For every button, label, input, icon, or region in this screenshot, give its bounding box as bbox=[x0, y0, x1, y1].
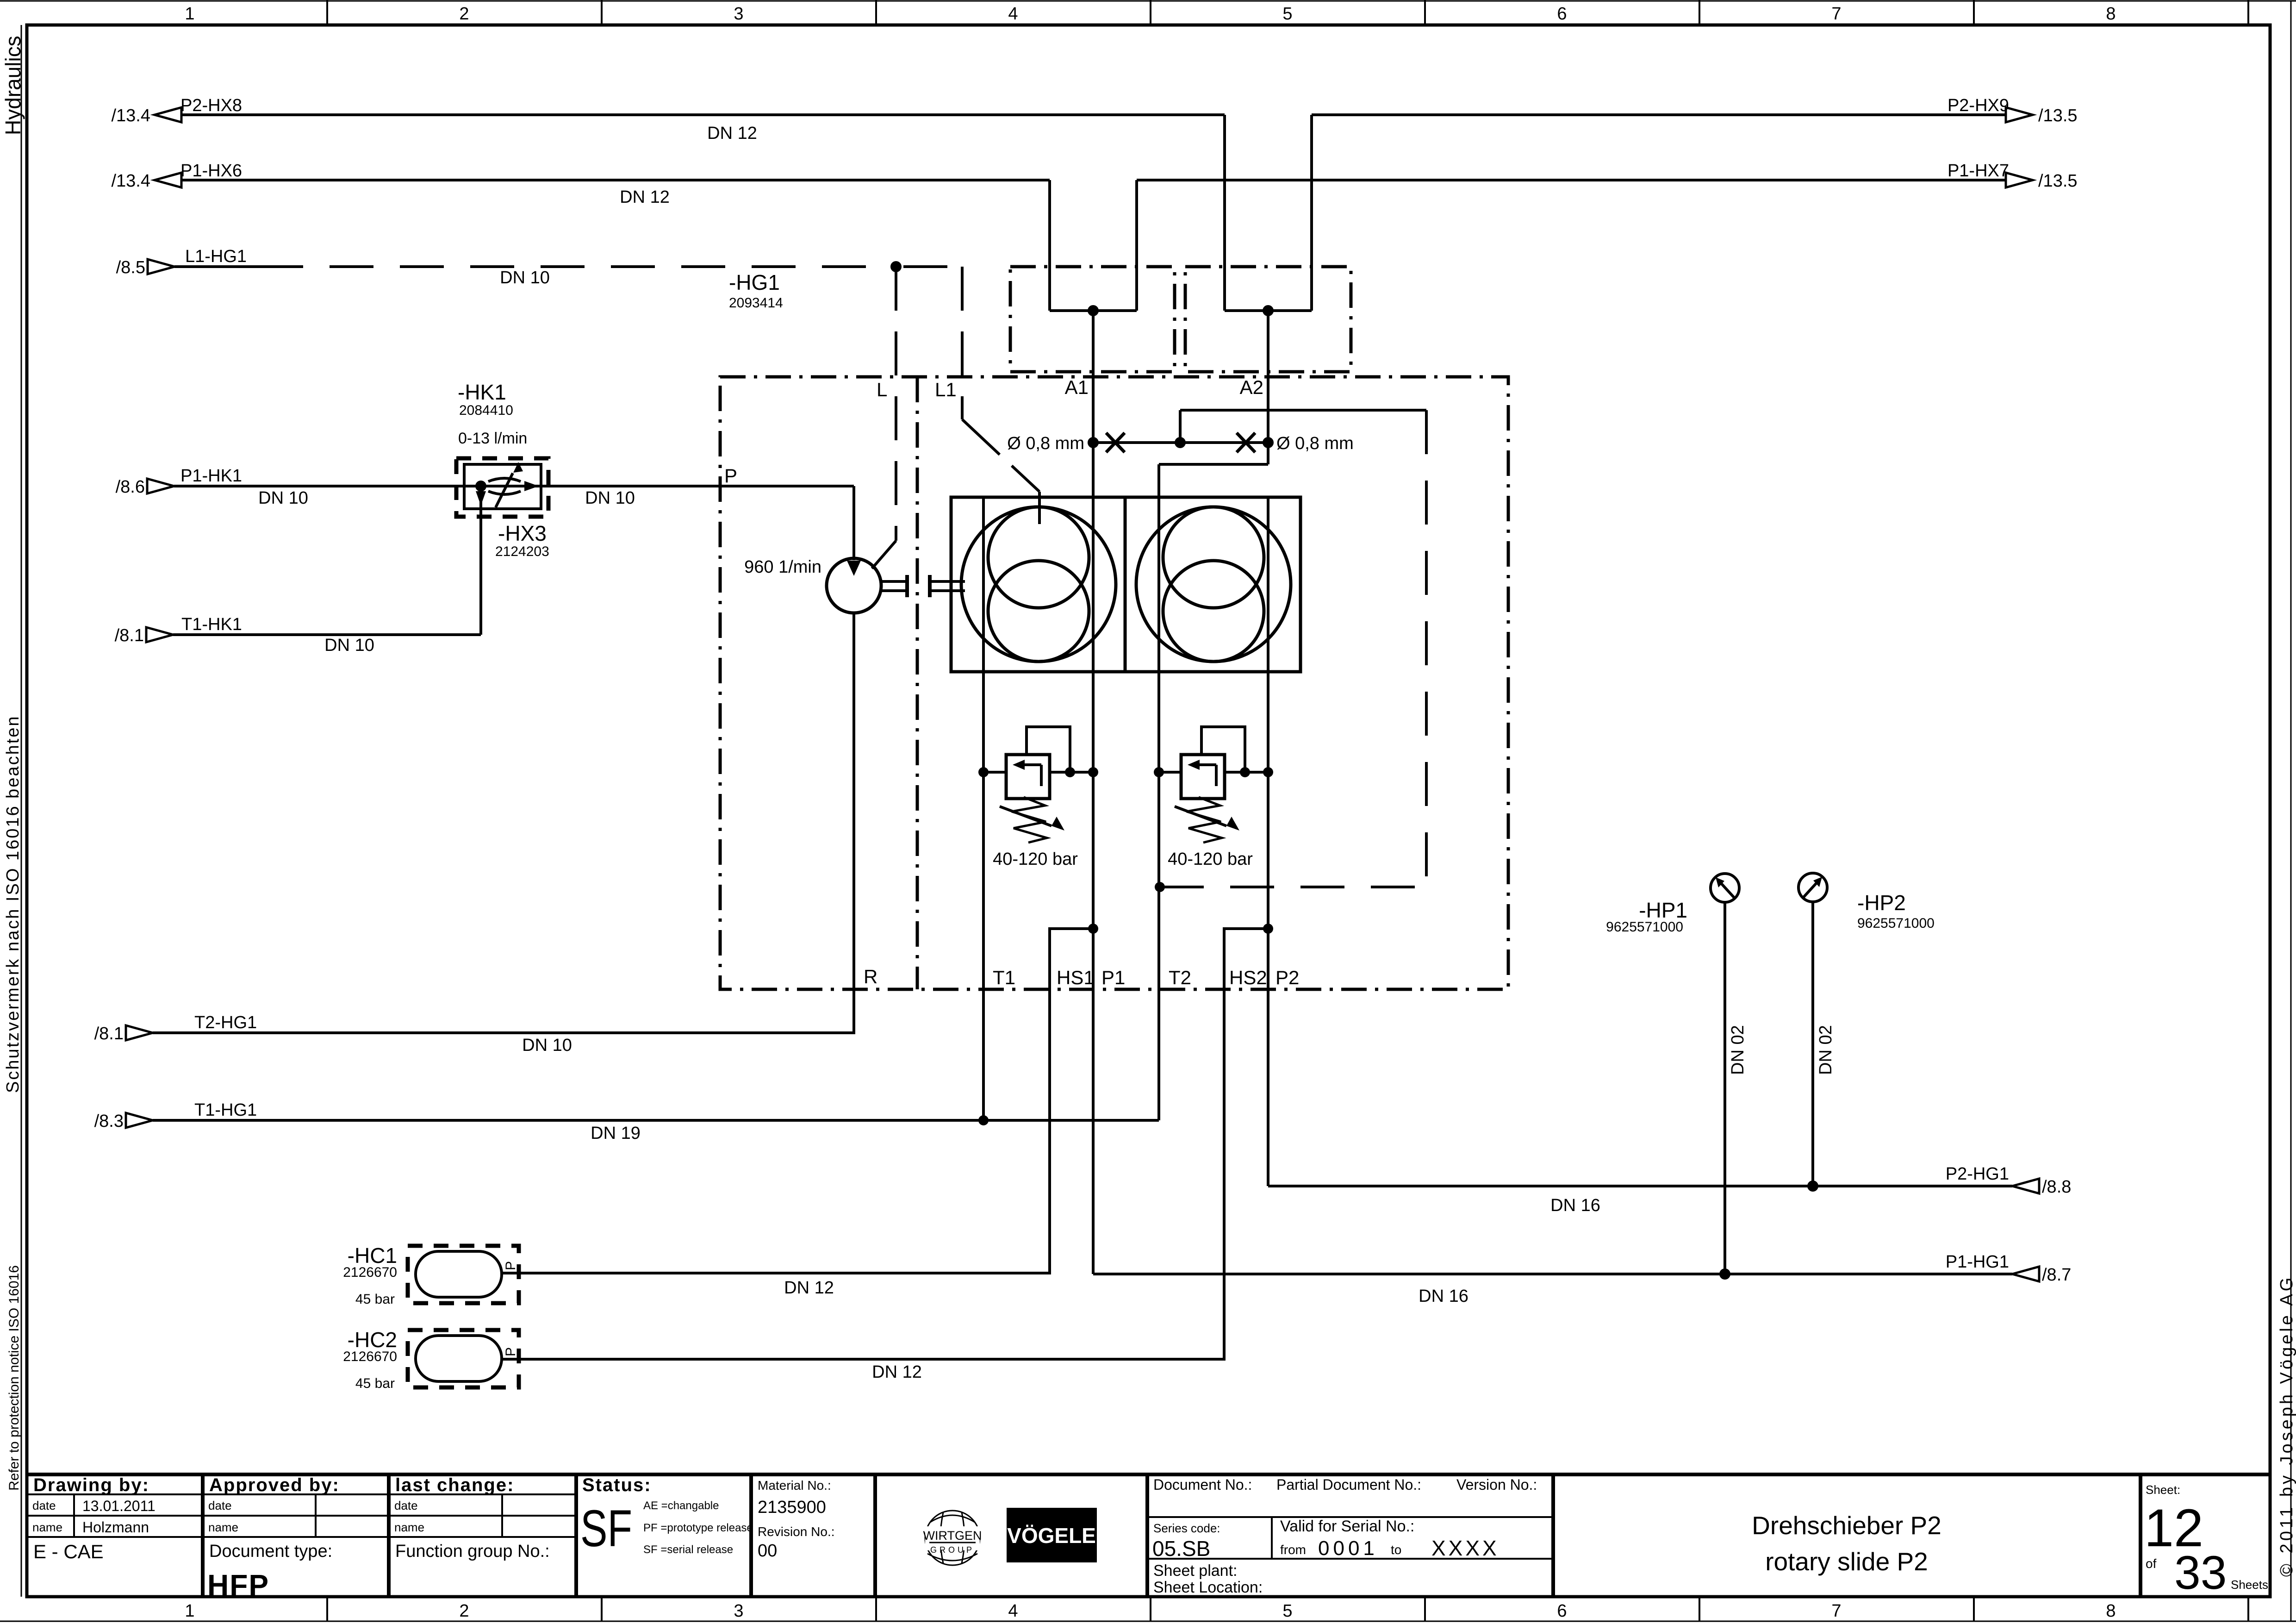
svg-text:45 bar: 45 bar bbox=[355, 1292, 395, 1307]
svg-text:name: name bbox=[208, 1520, 238, 1534]
svg-text:T2: T2 bbox=[1169, 967, 1191, 988]
svg-text:2084410: 2084410 bbox=[459, 403, 513, 418]
connection point arrows bbox=[126, 107, 2039, 1281]
svg-text:of: of bbox=[2146, 1556, 2157, 1571]
paper bottom band line bbox=[0, 1621, 2296, 1622]
svg-text:HS1: HS1 bbox=[1057, 967, 1095, 988]
svg-text:-HC1: -HC1 bbox=[348, 1243, 397, 1268]
relief valve 2 bbox=[1159, 727, 1268, 843]
arrow /8.8 P2-HG1 bbox=[2012, 1179, 2039, 1193]
flow divider -HG1 body bbox=[951, 497, 1300, 672]
svg-text:/8.7: /8.7 bbox=[2042, 1265, 2071, 1285]
svg-text:P1-HG1: P1-HG1 bbox=[1946, 1252, 2009, 1272]
wire sense crossover dashed drop bbox=[1425, 410, 1428, 887]
svg-text:45 bar: 45 bar bbox=[355, 1376, 395, 1391]
svg-text:/8.8: /8.8 bbox=[2042, 1177, 2071, 1197]
svg-text:HFP: HFP bbox=[207, 1568, 269, 1602]
wire orifice sense riser bbox=[1179, 410, 1182, 443]
wire HP1 stem bbox=[1724, 902, 1726, 1274]
wire P1-HX7 right segment bbox=[1137, 179, 2006, 181]
wire A1 feed bbox=[1092, 311, 1095, 1274]
svg-text:VÖGELE: VÖGELE bbox=[1007, 1524, 1096, 1548]
svg-text:40-120 bar: 40-120 bar bbox=[993, 849, 1078, 869]
svg-text:R: R bbox=[864, 966, 877, 987]
wire sense dashed return to T2 bbox=[1160, 886, 1426, 888]
wire P1-HX6 left segment bbox=[181, 179, 1050, 181]
wire L port dashed drop bbox=[895, 267, 897, 541]
svg-text:PF =prototype release: PF =prototype release bbox=[643, 1522, 753, 1534]
svg-text:Ø 0,8 mm: Ø 0,8 mm bbox=[1276, 434, 1354, 453]
svg-text:DN 16: DN 16 bbox=[1419, 1287, 1468, 1306]
svg-text:L: L bbox=[877, 379, 887, 400]
wire L1-HG1 solid start bbox=[174, 265, 259, 268]
arrow /13.5 P2-HX9 bbox=[2006, 107, 2033, 122]
svg-text:DN 12: DN 12 bbox=[784, 1278, 834, 1298]
arrow /8.7 P1-HG1 bbox=[2012, 1267, 2039, 1281]
svg-text:7: 7 bbox=[1831, 1601, 1841, 1621]
wire P1 drop left bbox=[1048, 180, 1051, 311]
svg-text:1: 1 bbox=[185, 4, 194, 24]
svg-text:7: 7 bbox=[1831, 4, 1841, 24]
svg-text:DN 10: DN 10 bbox=[258, 488, 308, 508]
svg-text:date: date bbox=[394, 1499, 418, 1512]
svg-text:DN 19: DN 19 bbox=[591, 1124, 641, 1143]
svg-text:DN 16: DN 16 bbox=[1550, 1196, 1600, 1215]
wire L1-HG1 dashed run bbox=[259, 265, 896, 268]
svg-text:name: name bbox=[394, 1520, 424, 1534]
svg-text:Material No.:: Material No.: bbox=[758, 1478, 831, 1493]
arrow /8.1 T2-HG1 bbox=[126, 1025, 153, 1040]
svg-text:DN 12: DN 12 bbox=[872, 1362, 922, 1382]
svg-text:name: name bbox=[32, 1520, 62, 1534]
accumulator -HC2 bbox=[408, 1330, 519, 1387]
svg-text:WIRTGEN: WIRTGEN bbox=[923, 1529, 982, 1543]
VOEGELE logo bbox=[1007, 1508, 1097, 1562]
small dash-dot box A2 bbox=[1185, 267, 1351, 372]
svg-text:8: 8 bbox=[2106, 4, 2116, 24]
svg-text:1: 1 bbox=[185, 1601, 194, 1621]
svg-text:P: P bbox=[503, 1261, 518, 1270]
svg-text:2124203: 2124203 bbox=[495, 544, 549, 559]
wire P2-HX8 left segment bbox=[181, 113, 1225, 116]
arrow /8.3 T1-HG1 bbox=[126, 1113, 153, 1128]
svg-text:Approved by:: Approved by: bbox=[209, 1475, 340, 1495]
svg-text:/13.4: /13.4 bbox=[111, 106, 150, 125]
svg-text:P1-HX7: P1-HX7 bbox=[1948, 161, 2009, 181]
svg-text:L1-HG1: L1-HG1 bbox=[185, 247, 247, 266]
small dash-dot box A1 bbox=[1010, 267, 1175, 372]
svg-text:HS2: HS2 bbox=[1229, 967, 1267, 988]
svg-text:-HG1: -HG1 bbox=[729, 270, 780, 294]
svg-text:P2-HX9: P2-HX9 bbox=[1948, 96, 2009, 115]
wire P2-HX9 right segment bbox=[1312, 113, 2006, 116]
svg-text:© 2011 by Joseph Vögele AG: © 2011 by Joseph Vögele AG bbox=[2277, 1275, 2296, 1577]
arrow /8.5 L1-HG1 bbox=[148, 259, 174, 274]
svg-text:rotary slide P2: rotary slide P2 bbox=[1765, 1547, 1928, 1576]
svg-text:P1-HX6: P1-HX6 bbox=[180, 161, 242, 181]
svg-text:P2: P2 bbox=[1276, 967, 1299, 988]
svg-text:/8.1: /8.1 bbox=[94, 1024, 124, 1043]
svg-text:3: 3 bbox=[734, 1601, 743, 1621]
top zone ticks bbox=[327, 0, 2248, 25]
svg-text:3: 3 bbox=[734, 4, 743, 24]
wire P1-HG1 bbox=[1093, 1273, 2012, 1275]
svg-text:Sheet Location:: Sheet Location: bbox=[1153, 1579, 1263, 1596]
svg-text:5: 5 bbox=[1282, 4, 1292, 24]
svg-text:XXXX: XXXX bbox=[1431, 1536, 1500, 1560]
arrow /8.6 P1-HK1 bbox=[147, 479, 174, 493]
svg-text:Valid for Serial No.:: Valid for Serial No.: bbox=[1280, 1518, 1414, 1535]
svg-text:/13.4: /13.4 bbox=[111, 171, 150, 191]
wire HP2 stem bbox=[1811, 902, 1814, 1186]
svg-text:Ø 0,8 mm: Ø 0,8 mm bbox=[1007, 434, 1084, 453]
wire P2 column bbox=[1267, 497, 1269, 1186]
wire HS2 branch bbox=[511, 929, 1268, 1359]
svg-text:5: 5 bbox=[1282, 1601, 1292, 1621]
svg-text:date: date bbox=[208, 1499, 232, 1512]
svg-text:P2-HX8: P2-HX8 bbox=[180, 96, 242, 115]
wire P2 drop right bbox=[1310, 115, 1313, 311]
svg-text:Sheet plant:: Sheet plant: bbox=[1153, 1562, 1237, 1580]
relief valve 1 bbox=[983, 727, 1093, 843]
pressure gauge -HP1 bbox=[1711, 874, 1739, 902]
bottom zone ticks bbox=[327, 1597, 2248, 1621]
drive shaft bbox=[881, 575, 965, 597]
svg-text:P2-HG1: P2-HG1 bbox=[1946, 1164, 2009, 1184]
gear section 2 circles bbox=[1136, 507, 1291, 662]
gear section 1 circles bbox=[961, 507, 1116, 662]
svg-text:-HP1: -HP1 bbox=[1639, 898, 1687, 922]
wire T1-HK1 bbox=[173, 633, 481, 636]
svg-text:8: 8 bbox=[2106, 1601, 2116, 1621]
wire A2 jog bbox=[1159, 463, 1268, 466]
svg-text:DN 12: DN 12 bbox=[620, 187, 670, 207]
arrow /13.5 P1-HX7 bbox=[2006, 173, 2033, 187]
wire L1 dashed continuation bbox=[903, 265, 962, 268]
svg-text:last change:: last change: bbox=[395, 1475, 514, 1495]
arrow /8.1 T1-HK1 bbox=[146, 627, 173, 642]
svg-text:P1: P1 bbox=[1101, 967, 1125, 988]
wire T1 column bbox=[982, 497, 985, 1120]
svg-text:2126670: 2126670 bbox=[343, 1349, 397, 1364]
wire L1 diagonal bbox=[962, 419, 1039, 492]
wire A2 feed upper bbox=[1267, 311, 1269, 464]
svg-text:T1-HG1: T1-HG1 bbox=[194, 1100, 257, 1120]
svg-text:DN 02: DN 02 bbox=[1816, 1025, 1836, 1075]
svg-text:A2: A2 bbox=[1240, 376, 1263, 398]
svg-text:to: to bbox=[1391, 1543, 1401, 1557]
svg-text:SF =serial release: SF =serial release bbox=[643, 1543, 733, 1556]
svg-text:SF: SF bbox=[580, 1499, 632, 1557]
svg-text:2: 2 bbox=[459, 1601, 469, 1621]
title block vertical separators bbox=[203, 1474, 2140, 1597]
arrow /13.4 P2-HX8 bbox=[155, 107, 181, 122]
wire T1-HG1 bbox=[153, 1119, 1159, 1122]
TITLEBLOCK bbox=[27, 1474, 2270, 1597]
svg-text:L1: L1 bbox=[935, 379, 957, 400]
svg-text:from: from bbox=[1280, 1543, 1306, 1557]
svg-text:Revision No.:: Revision No.: bbox=[758, 1524, 835, 1539]
svg-text:Drehschieber P2: Drehschieber P2 bbox=[1752, 1511, 1941, 1540]
motor arrow bbox=[847, 561, 861, 576]
svg-text:DN 10: DN 10 bbox=[585, 488, 635, 508]
wire P2-HG1 bbox=[1268, 1185, 2012, 1187]
svg-text:Series code:: Series code: bbox=[1153, 1521, 1220, 1535]
svg-text:DN 10: DN 10 bbox=[324, 636, 374, 655]
svg-text:9625571000: 9625571000 bbox=[1606, 919, 1683, 935]
svg-text:Document No.:: Document No.: bbox=[1153, 1476, 1252, 1493]
svg-text:33: 33 bbox=[2174, 1546, 2227, 1599]
motor 960 1/min circle bbox=[827, 558, 881, 613]
svg-text:Schutzvermerk nach ISO 16016 b: Schutzvermerk nach ISO 16016 beachten bbox=[3, 715, 23, 1093]
pressure gauge -HP2 bbox=[1798, 873, 1827, 902]
wire HK1 tank drop bbox=[479, 486, 482, 635]
svg-text:Status:: Status: bbox=[582, 1475, 652, 1495]
wire T2 column bbox=[1157, 464, 1160, 1120]
svg-text:-HP2: -HP2 bbox=[1857, 891, 1906, 915]
svg-text:Drawing by:: Drawing by: bbox=[33, 1475, 149, 1495]
wire orifice line A1 bbox=[1093, 441, 1180, 444]
accumulator -HC1 bbox=[408, 1246, 519, 1303]
svg-text:/13.5: /13.5 bbox=[2038, 106, 2078, 125]
svg-text:2093414: 2093414 bbox=[729, 295, 783, 311]
svg-text:/13.5: /13.5 bbox=[2038, 171, 2078, 191]
svg-text:Function group No.:: Function group No.: bbox=[395, 1542, 550, 1561]
svg-text:40-120 bar: 40-120 bar bbox=[1168, 849, 1253, 869]
paper top edge line bbox=[0, 0, 2296, 2]
svg-text:9625571000: 9625571000 bbox=[1857, 916, 1935, 931]
svg-text:P: P bbox=[503, 1347, 518, 1356]
svg-text:4: 4 bbox=[1008, 4, 1018, 24]
svg-text:0001: 0001 bbox=[1318, 1537, 1378, 1560]
svg-text:DN 10: DN 10 bbox=[522, 1036, 572, 1055]
enclosure -HG1 dash-dot box bbox=[720, 267, 1508, 989]
svg-text:960 1/min: 960 1/min bbox=[744, 557, 821, 577]
svg-text:T1: T1 bbox=[993, 967, 1015, 988]
wire motor inlet drop bbox=[852, 486, 855, 560]
title block inner lines right bbox=[1147, 1517, 1553, 1559]
svg-text:-HC2: -HC2 bbox=[348, 1328, 397, 1352]
svg-text:-HX3: -HX3 bbox=[498, 521, 547, 545]
wire P1 drop right bbox=[1135, 180, 1138, 311]
svg-text:Sheets: Sheets bbox=[2231, 1578, 2268, 1592]
WIRTGEN GROUP logo bbox=[925, 1511, 980, 1565]
wire HS1 branch bbox=[511, 929, 1093, 1273]
svg-text:Sheet:: Sheet: bbox=[2146, 1483, 2180, 1497]
hose -HX3 dashed enclosure bbox=[456, 458, 548, 517]
left margin band line bbox=[21, 25, 22, 1597]
svg-text:00: 00 bbox=[758, 1541, 777, 1561]
svg-text:P: P bbox=[724, 465, 737, 487]
orifice symbol A1 bbox=[1106, 433, 1125, 452]
wire orifice line A2 bbox=[1180, 441, 1268, 444]
wire P through HK1 and to motor bbox=[464, 485, 854, 487]
svg-text:date: date bbox=[32, 1499, 56, 1512]
svg-text:2135900: 2135900 bbox=[758, 1498, 826, 1517]
right margin band line bbox=[2290, 1, 2292, 1621]
svg-text:0-13 l/min: 0-13 l/min bbox=[458, 430, 527, 447]
svg-text:DN 02: DN 02 bbox=[1728, 1025, 1748, 1075]
wire P1-HK1 bbox=[174, 485, 464, 487]
svg-text:/8.3: /8.3 bbox=[94, 1112, 124, 1131]
svg-text:2126670: 2126670 bbox=[343, 1265, 397, 1280]
svg-text:-HK1: -HK1 bbox=[458, 380, 506, 404]
orifice symbol A2 bbox=[1237, 433, 1255, 452]
wire P2 drop left bbox=[1223, 115, 1226, 311]
flow control valve -HK1 bbox=[464, 464, 541, 509]
wire L diagonal into motor bbox=[872, 541, 896, 568]
svg-text:Holzmann: Holzmann bbox=[82, 1519, 149, 1536]
svg-text:DN 12: DN 12 bbox=[707, 124, 757, 143]
svg-text:DN 10: DN 10 bbox=[500, 268, 550, 287]
svg-text:Hydraulics: Hydraulics bbox=[1, 36, 25, 135]
svg-text:P1-HK1: P1-HK1 bbox=[180, 466, 242, 486]
svg-text:2: 2 bbox=[459, 4, 469, 24]
svg-text:/8.6: /8.6 bbox=[116, 477, 145, 497]
wire L1 stub into gear bbox=[1038, 492, 1041, 524]
svg-text:4: 4 bbox=[1008, 1601, 1018, 1621]
svg-text:A1: A1 bbox=[1065, 376, 1089, 398]
svg-text:13.01.2011: 13.01.2011 bbox=[82, 1498, 156, 1514]
arrow /13.4 P1-HX6 bbox=[155, 173, 181, 187]
title block outer top bbox=[27, 1473, 2270, 1476]
wire motor outlet to R and T2-HG1 bbox=[153, 613, 854, 1033]
svg-text:T1-HK1: T1-HK1 bbox=[181, 615, 242, 634]
title block inner lines left bbox=[27, 1494, 576, 1537]
wire P1 bridge bbox=[1050, 309, 1137, 312]
svg-text:6: 6 bbox=[1557, 1601, 1567, 1621]
svg-text:E - CAE: E - CAE bbox=[33, 1541, 104, 1562]
svg-text:T2-HG1: T2-HG1 bbox=[194, 1013, 257, 1032]
svg-text:05.SB: 05.SB bbox=[1152, 1537, 1210, 1561]
wire sense crossover top bbox=[1180, 409, 1426, 412]
svg-text:Refer to protection notice ISO: Refer to protection notice ISO 16016 bbox=[6, 1265, 22, 1491]
svg-text:Partial Document No.:: Partial Document No.: bbox=[1276, 1476, 1421, 1493]
svg-text:AE =changable: AE =changable bbox=[643, 1499, 719, 1512]
svg-text:6: 6 bbox=[1557, 4, 1567, 24]
wire P2 bridge bbox=[1225, 309, 1312, 312]
inner block dash-dot left edge bbox=[916, 377, 919, 989]
wire L1 dashed drop bbox=[961, 267, 964, 419]
svg-text:/8.1: /8.1 bbox=[115, 626, 144, 645]
svg-text:/8.5: /8.5 bbox=[116, 258, 145, 277]
svg-text:Version No.:: Version No.: bbox=[1456, 1476, 1537, 1493]
svg-text:GROUP: GROUP bbox=[930, 1545, 975, 1555]
svg-text:Document type:: Document type: bbox=[209, 1542, 332, 1561]
